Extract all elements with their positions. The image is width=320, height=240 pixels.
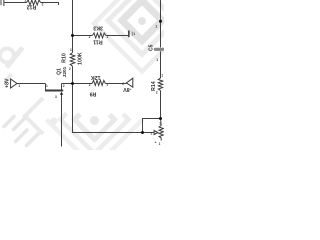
- wire vertical lower and bottom horizontal: [73, 84, 143, 133]
- svg-text:2: 2: [63, 84, 65, 88]
- svg-text:1: 1: [107, 35, 109, 39]
- svg-text:1: 1: [159, 142, 161, 146]
- resistor R10 zigzag vertical: [70, 53, 75, 67]
- watermark stray strokes bottom-left: [4, 117, 38, 146]
- wire feedback up left of pot: [143, 119, 161, 133]
- wire top row right with stub: [41, 3, 59, 6]
- svg-text:-8V: -8V: [123, 86, 132, 92]
- pot wiper arrow: [154, 131, 158, 135]
- junction dot bottom of R10: [71, 82, 74, 85]
- svg-text:3K3: 3K3: [93, 24, 103, 30]
- watermark logo top-right: dot and nested diamond rings: [94, 0, 190, 72]
- capacitor top-left plate 1: [0, 0, 2, 5]
- wire vertical upper: [72, 0, 74, 36]
- wire +8V to Q1: [17, 83, 46, 85]
- svg-text:+: +: [155, 140, 157, 144]
- wire top row left: [4, 2, 26, 4]
- wire R14 to pot junction: [160, 91, 162, 119]
- wire bottom to pot wiper: [143, 132, 154, 134]
- resistor R11 zigzag: [92, 33, 106, 38]
- watermark partial corner left: [25, 98, 58, 134]
- wire R11 to capacitor: [106, 35, 128, 37]
- svg-text:1: 1: [106, 83, 108, 87]
- svg-text:1: 1: [133, 32, 135, 36]
- svg-text:100K: 100K: [77, 52, 83, 65]
- trimmer zigzag vertical: [159, 125, 163, 137]
- svg-text:12K: 12K: [91, 74, 101, 80]
- svg-text:1: 1: [46, 84, 48, 88]
- svg-text:C5: C5: [149, 44, 155, 51]
- transistor Q1 gate arrow: [60, 92, 63, 95]
- svg-text:2: 2: [151, 132, 153, 136]
- svg-text:R10: R10: [61, 53, 67, 63]
- svg-text:2: 2: [156, 91, 158, 95]
- supply -8V triangle: [126, 78, 132, 87]
- trimmer lead bottom: [160, 138, 162, 141]
- transistor Q1 gate wire down: [61, 95, 63, 147]
- wire R9 to -8V: [105, 83, 126, 85]
- resistor R12 zigzag: [27, 0, 41, 5]
- svg-text:3: 3: [55, 95, 57, 99]
- svg-text:1: 1: [155, 25, 157, 29]
- svg-text:1: 1: [18, 84, 20, 88]
- svg-text:2: 2: [42, 3, 44, 7]
- svg-text:1: 1: [161, 74, 163, 78]
- svg-text:Q1: Q1: [57, 68, 63, 75]
- wire junction to R9: [73, 83, 93, 85]
- svg-text:+8V: +8V: [5, 78, 11, 88]
- trimmer lead top: [160, 119, 163, 126]
- svg-text:1: 1: [156, 58, 158, 62]
- capacitor plate right mid-right: [131, 32, 133, 36]
- transistor Q1 channel bar: [45, 90, 63, 92]
- svg-text:1: 1: [24, 0, 26, 3]
- resistor R9 zigzag: [92, 80, 105, 85]
- wire Q1 drain to junction: [62, 83, 73, 85]
- svg-text:J201: J201: [62, 66, 68, 77]
- supply +8V triangle: [11, 79, 17, 88]
- svg-text:R11: R11: [93, 38, 102, 44]
- watermark logo centre-bottom: dot and nested diamond rings: [47, 114, 143, 168]
- junction dot right rail: [159, 20, 162, 23]
- capacitor plate left mid-right: [128, 31, 130, 38]
- resistor R14 zigzag vertical: [158, 78, 162, 91]
- right rail top: [160, 0, 162, 47]
- transistor Q1 drain lead: [61, 84, 63, 90]
- svg-text:2: 2: [89, 35, 91, 39]
- wire C5 to R14: [160, 51, 162, 78]
- capacitor top-left plate 2: [3, 0, 5, 6]
- junction dot bottom wire: [141, 131, 144, 134]
- svg-text:2: 2: [69, 67, 71, 71]
- svg-text:2: 2: [89, 83, 91, 87]
- svg-text:R12: R12: [27, 3, 37, 9]
- svg-text:R9: R9: [90, 90, 97, 96]
- resistor R10 lead bottom: [72, 66, 74, 83]
- junction dot pot top: [159, 117, 162, 120]
- wire row to R11: [73, 35, 93, 37]
- svg-text:1: 1: [70, 48, 72, 52]
- watermark ampersand glyph left: [0, 48, 23, 82]
- svg-text:2: 2: [122, 82, 124, 86]
- svg-text:R14: R14: [151, 81, 157, 91]
- svg-text:3: 3: [159, 121, 161, 125]
- transistor Q1 source lead: [45, 84, 47, 90]
- junction dot top of R10: [71, 34, 74, 37]
- capacitor C5 plates: [154, 48, 164, 51]
- resistor R10 lead top: [72, 36, 74, 53]
